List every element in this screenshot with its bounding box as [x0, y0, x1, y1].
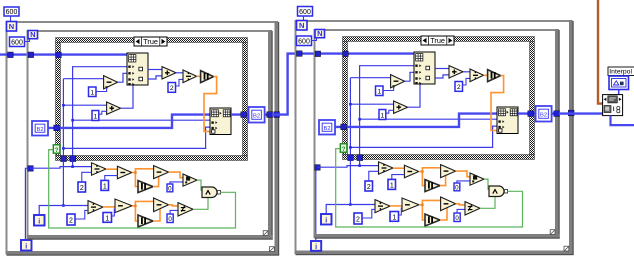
wire B2 structure2 to interpolate node — [559, 112, 603, 114]
loop count terminal N (outer loop 1) — [7, 22, 17, 32]
outer for-loop frame 1 — [6, 21, 280, 256]
outer for-loop frame 2 — [295, 20, 574, 255]
tunnel main at outer loop 2 edge — [297, 51, 303, 57]
for-loop structure 2 contents (copy) — [297, 29, 560, 239]
tunnel B2 write at outer loop 1 edge — [274, 112, 280, 118]
wire 600 to N (outer loop 1) — [10, 16, 12, 22]
iteration terminal i (outer loop 2) — [311, 241, 321, 251]
wire B2 structure1 to structure2 — [272, 54, 316, 115]
wire main array into structure 1 — [0, 53, 30, 55]
outer loop 1 resize handle — [270, 247, 275, 252]
iteration terminal i (outer loop 1) — [21, 240, 32, 251]
wire outer i 1 riser — [25, 168, 28, 240]
wire cluster brown (top right) — [598, 0, 603, 104]
wire interpolate node output — [611, 116, 634, 126]
outer loop 2 resize handle — [564, 246, 569, 251]
wire VI icon to interpolate node — [618, 90, 620, 95]
wire outer i 2 riser — [315, 167, 317, 241]
wire 600 to N (outer loop 2) — [303, 16, 305, 21]
svg-text:N: N — [9, 22, 14, 31]
svg-text:Interpol: Interpol — [609, 69, 632, 76]
tunnel B2 write at outer loop 2 edge — [568, 110, 574, 116]
numeric constant 600 (outer loop 1) — [4, 7, 19, 16]
svg-text:N: N — [299, 21, 304, 30]
tunnel main at outer loop 1 edge — [8, 52, 14, 58]
svg-text:600: 600 — [6, 9, 18, 16]
label Interpolate — [608, 67, 634, 76]
loop count terminal N (outer loop 2) — [297, 21, 308, 31]
svg-text:i: i — [315, 244, 317, 251]
VI reference icon — [609, 76, 629, 90]
svg-text:600: 600 — [299, 9, 311, 16]
for-loop structure 1 contents — [10, 30, 273, 240]
interpolate 1D array node — [603, 95, 623, 116]
numeric constant 600 (outer loop 2) — [298, 7, 313, 17]
svg-text:i: i — [25, 243, 27, 250]
